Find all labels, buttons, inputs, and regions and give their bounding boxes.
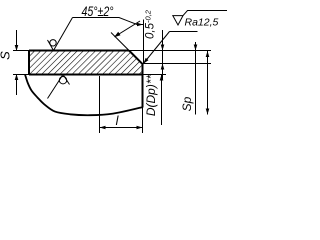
svg-text:D(Dp)**: D(Dp)** [144,75,158,117]
svg-text:45°±2°: 45°±2° [82,4,114,19]
svg-text:S: S [0,51,13,60]
svg-text:Sp: Sp [180,96,194,111]
svg-text:Ra12,5: Ra12,5 [185,17,219,29]
